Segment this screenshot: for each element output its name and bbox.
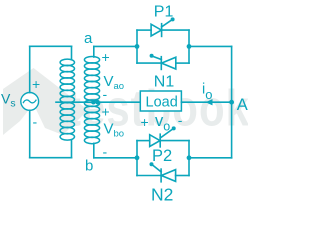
label N2 <box>151 184 173 204</box>
svg-text:-: - <box>103 86 108 102</box>
svg-text:b: b <box>85 158 93 175</box>
node a label <box>84 30 93 47</box>
svg-text:+: + <box>102 104 110 120</box>
wire: left vertical top (circle to top-left corner) <box>29 46 31 92</box>
label v_ao <box>104 73 125 92</box>
svg-text:-: - <box>178 112 183 128</box>
label P2 <box>152 147 172 165</box>
junction dot box2 right <box>187 155 192 160</box>
node A dot <box>229 100 234 105</box>
label v_o <box>155 112 170 134</box>
P1/N1 box left edge <box>136 30 138 63</box>
svg-text:P2: P2 <box>152 147 172 165</box>
svg-text:A: A <box>237 96 248 114</box>
label - (v_o) <box>178 112 183 128</box>
load box <box>140 91 181 111</box>
label N1 <box>154 74 175 91</box>
label - (v_ao) <box>103 86 108 102</box>
P2/N2 box left edge <box>136 141 138 176</box>
wire: b to P2/N2 box <box>94 157 137 159</box>
wire: a to P1/N1 box <box>94 45 137 47</box>
thyristor P2 <box>137 126 189 147</box>
svg-text:N2: N2 <box>151 184 173 203</box>
P2/N2 box right edge <box>188 141 190 176</box>
wire: primary loop top <box>30 45 72 47</box>
center tap junction dot <box>91 100 100 105</box>
thyristor N2 <box>137 162 189 182</box>
label v_bo <box>104 121 125 140</box>
label - (v_bo) <box>103 144 108 160</box>
svg-text:N1: N1 <box>154 74 175 91</box>
wire: load to rail with current arrow <box>181 101 231 103</box>
junction dot box1 left <box>135 44 140 49</box>
current arrow i_o <box>206 99 213 105</box>
junction dot box1 right <box>187 44 192 49</box>
thyristor N1 <box>137 54 189 70</box>
thyristor P1 <box>137 17 189 36</box>
svg-text:Load: Load <box>146 94 178 110</box>
svg-text:+: + <box>141 114 149 130</box>
wire: box2 right to rail <box>189 157 232 159</box>
wire: left vertical bottom <box>29 110 31 157</box>
svg-text:-: - <box>33 114 38 130</box>
source Vs <box>21 93 39 111</box>
svg-text:P1: P1 <box>154 3 174 20</box>
label Load <box>146 94 178 110</box>
svg-text:+: + <box>102 49 110 65</box>
right rail <box>231 46 233 157</box>
label Vs <box>1 91 16 110</box>
label + (v_ao) <box>102 49 110 65</box>
source - polarity <box>33 114 38 130</box>
junction dot box2 left <box>135 155 140 160</box>
transformer primary winding <box>60 46 74 157</box>
label P1 <box>154 3 174 20</box>
label A <box>237 96 248 114</box>
source + polarity <box>32 76 40 92</box>
P1/N1 box right edge <box>188 30 190 63</box>
node b label <box>85 158 93 175</box>
svg-text:+: + <box>32 76 40 92</box>
label + (v_o) <box>141 114 149 130</box>
label + (v_bo) <box>102 104 110 120</box>
transformer secondary winding (center tapped) <box>84 46 99 157</box>
label i_o <box>202 82 212 102</box>
svg-text:a: a <box>84 30 93 47</box>
wire: primary loop bottom <box>30 157 72 159</box>
center tap wire <box>56 101 140 103</box>
wire: box1 right to rail <box>189 45 232 47</box>
